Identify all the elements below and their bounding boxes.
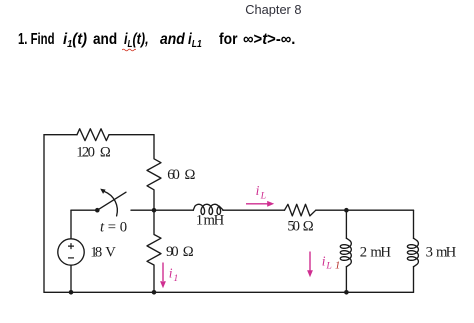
wire middle <box>131 209 414 211</box>
svg-text:120: 120 <box>76 145 95 161</box>
inductor 2mH leads <box>345 210 347 292</box>
svg-text:1: 1 <box>173 273 178 284</box>
svg-text:Ω: Ω <box>183 244 194 260</box>
svg-text:mH: mH <box>436 245 457 261</box>
wire left <box>43 135 45 293</box>
svg-text:L: L <box>260 190 266 201</box>
svg-text:t = 0: t = 0 <box>100 219 127 235</box>
node junction 2mH bottom <box>344 290 349 295</box>
inductor 3mH <box>407 238 418 267</box>
svg-text:mH: mH <box>204 213 225 229</box>
resistor 120ohm <box>77 129 109 141</box>
header: Chapter 8 <box>245 2 301 17</box>
node junction middle <box>152 208 157 213</box>
svg-text:2: 2 <box>360 245 367 261</box>
voltage source minus sign <box>68 257 74 259</box>
wire bottom <box>44 291 414 293</box>
arrowhead iL <box>267 201 274 207</box>
svg-text:Ω: Ω <box>100 145 111 161</box>
svg-text:60: 60 <box>167 167 180 183</box>
svg-text:i: i <box>322 253 326 268</box>
svg-text:90: 90 <box>166 244 179 260</box>
voltage source 18V leads <box>70 210 72 292</box>
svg-text:i: i <box>256 183 260 198</box>
resistor 60ohm <box>147 135 161 211</box>
node junction 2mH top <box>344 208 349 213</box>
svg-text:1: 1 <box>196 213 203 229</box>
svg-text:V: V <box>105 244 116 260</box>
inductor 1mH <box>193 204 223 214</box>
svg-text:3: 3 <box>426 245 433 261</box>
node junction bottom left <box>69 290 74 295</box>
svg-text:Ω: Ω <box>185 167 196 183</box>
svg-text:i: i <box>169 266 173 281</box>
switch arc arrowhead <box>100 189 105 194</box>
current arrow i1 <box>162 263 164 282</box>
wire top <box>44 134 154 136</box>
resistor 90ohm <box>147 210 161 292</box>
problem title <box>18 31 55 49</box>
current arrow iL <box>246 203 268 205</box>
arrowhead i1 <box>160 281 166 288</box>
voltage source plus sign <box>68 243 74 249</box>
svg-text:Ω: Ω <box>303 219 314 235</box>
spellcheck squiggle under iL <box>122 48 136 52</box>
svg-text:L: L <box>325 261 331 272</box>
svg-text:mH: mH <box>370 245 391 261</box>
arrowhead iL1 <box>307 270 313 277</box>
switch pole node <box>95 208 100 213</box>
voltage source 18V <box>58 239 84 265</box>
svg-text:18: 18 <box>90 244 102 260</box>
resistor 50ohm <box>285 204 316 216</box>
inductor 2mH <box>340 238 351 267</box>
current arrow iL1 <box>309 252 311 271</box>
svg-text:50: 50 <box>287 219 300 235</box>
switch blade <box>97 192 126 210</box>
node junction bottom mid <box>152 290 157 295</box>
switch arc <box>104 192 117 216</box>
svg-text:1: 1 <box>335 259 340 271</box>
inductor 3mH leads <box>413 210 415 292</box>
wire switch left <box>71 209 95 211</box>
